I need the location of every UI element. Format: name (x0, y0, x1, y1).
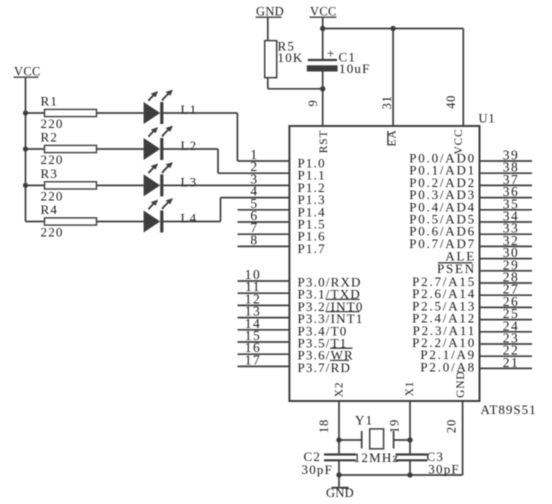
svg-text:18: 18 (317, 419, 331, 433)
svg-text:17: 17 (245, 352, 262, 367)
svg-text:X1: X1 (404, 381, 416, 397)
svg-text:L2: L2 (181, 138, 198, 153)
svg-text:U1: U1 (479, 112, 496, 126)
svg-text:R3: R3 (41, 166, 59, 181)
svg-text:+: + (327, 46, 336, 61)
svg-text:VCC: VCC (14, 65, 41, 79)
svg-text:P3.7/RD: P3.7/RD (298, 360, 352, 375)
svg-text:9: 9 (306, 99, 320, 106)
svg-text:P2.0/A8: P2.0/A8 (420, 359, 476, 374)
svg-text:220: 220 (41, 152, 64, 167)
svg-text:21: 21 (503, 355, 520, 370)
svg-text:220: 220 (41, 225, 64, 240)
svg-text:30pF: 30pF (428, 461, 460, 476)
svg-text:12MHz: 12MHz (354, 450, 400, 465)
svg-text:R4: R4 (41, 202, 59, 217)
svg-text:10K: 10K (278, 50, 304, 65)
svg-text:10uF: 10uF (339, 61, 371, 76)
svg-text:30pF: 30pF (302, 462, 334, 477)
svg-text:RST: RST (318, 130, 330, 154)
svg-text:8: 8 (250, 232, 258, 247)
svg-text:VCC: VCC (310, 5, 337, 19)
svg-text:VCC: VCC (453, 128, 465, 154)
svg-text:L4: L4 (181, 211, 198, 226)
svg-text:GND: GND (326, 486, 354, 500)
svg-text:Y1: Y1 (355, 413, 373, 428)
svg-text:P1.7: P1.7 (298, 241, 326, 256)
svg-text:AT89S51: AT89S51 (481, 402, 537, 417)
svg-text:GND: GND (455, 371, 467, 398)
svg-text:L3: L3 (181, 174, 198, 189)
svg-text:L1: L1 (181, 102, 198, 117)
svg-text:GND: GND (256, 5, 284, 19)
svg-text:X2: X2 (334, 382, 346, 398)
svg-text:19: 19 (388, 419, 402, 433)
svg-text:20: 20 (444, 419, 458, 433)
svg-text:31: 31 (380, 95, 394, 109)
svg-text:40: 40 (444, 95, 458, 109)
svg-text:R1: R1 (41, 94, 59, 109)
svg-text:R2: R2 (41, 130, 59, 145)
